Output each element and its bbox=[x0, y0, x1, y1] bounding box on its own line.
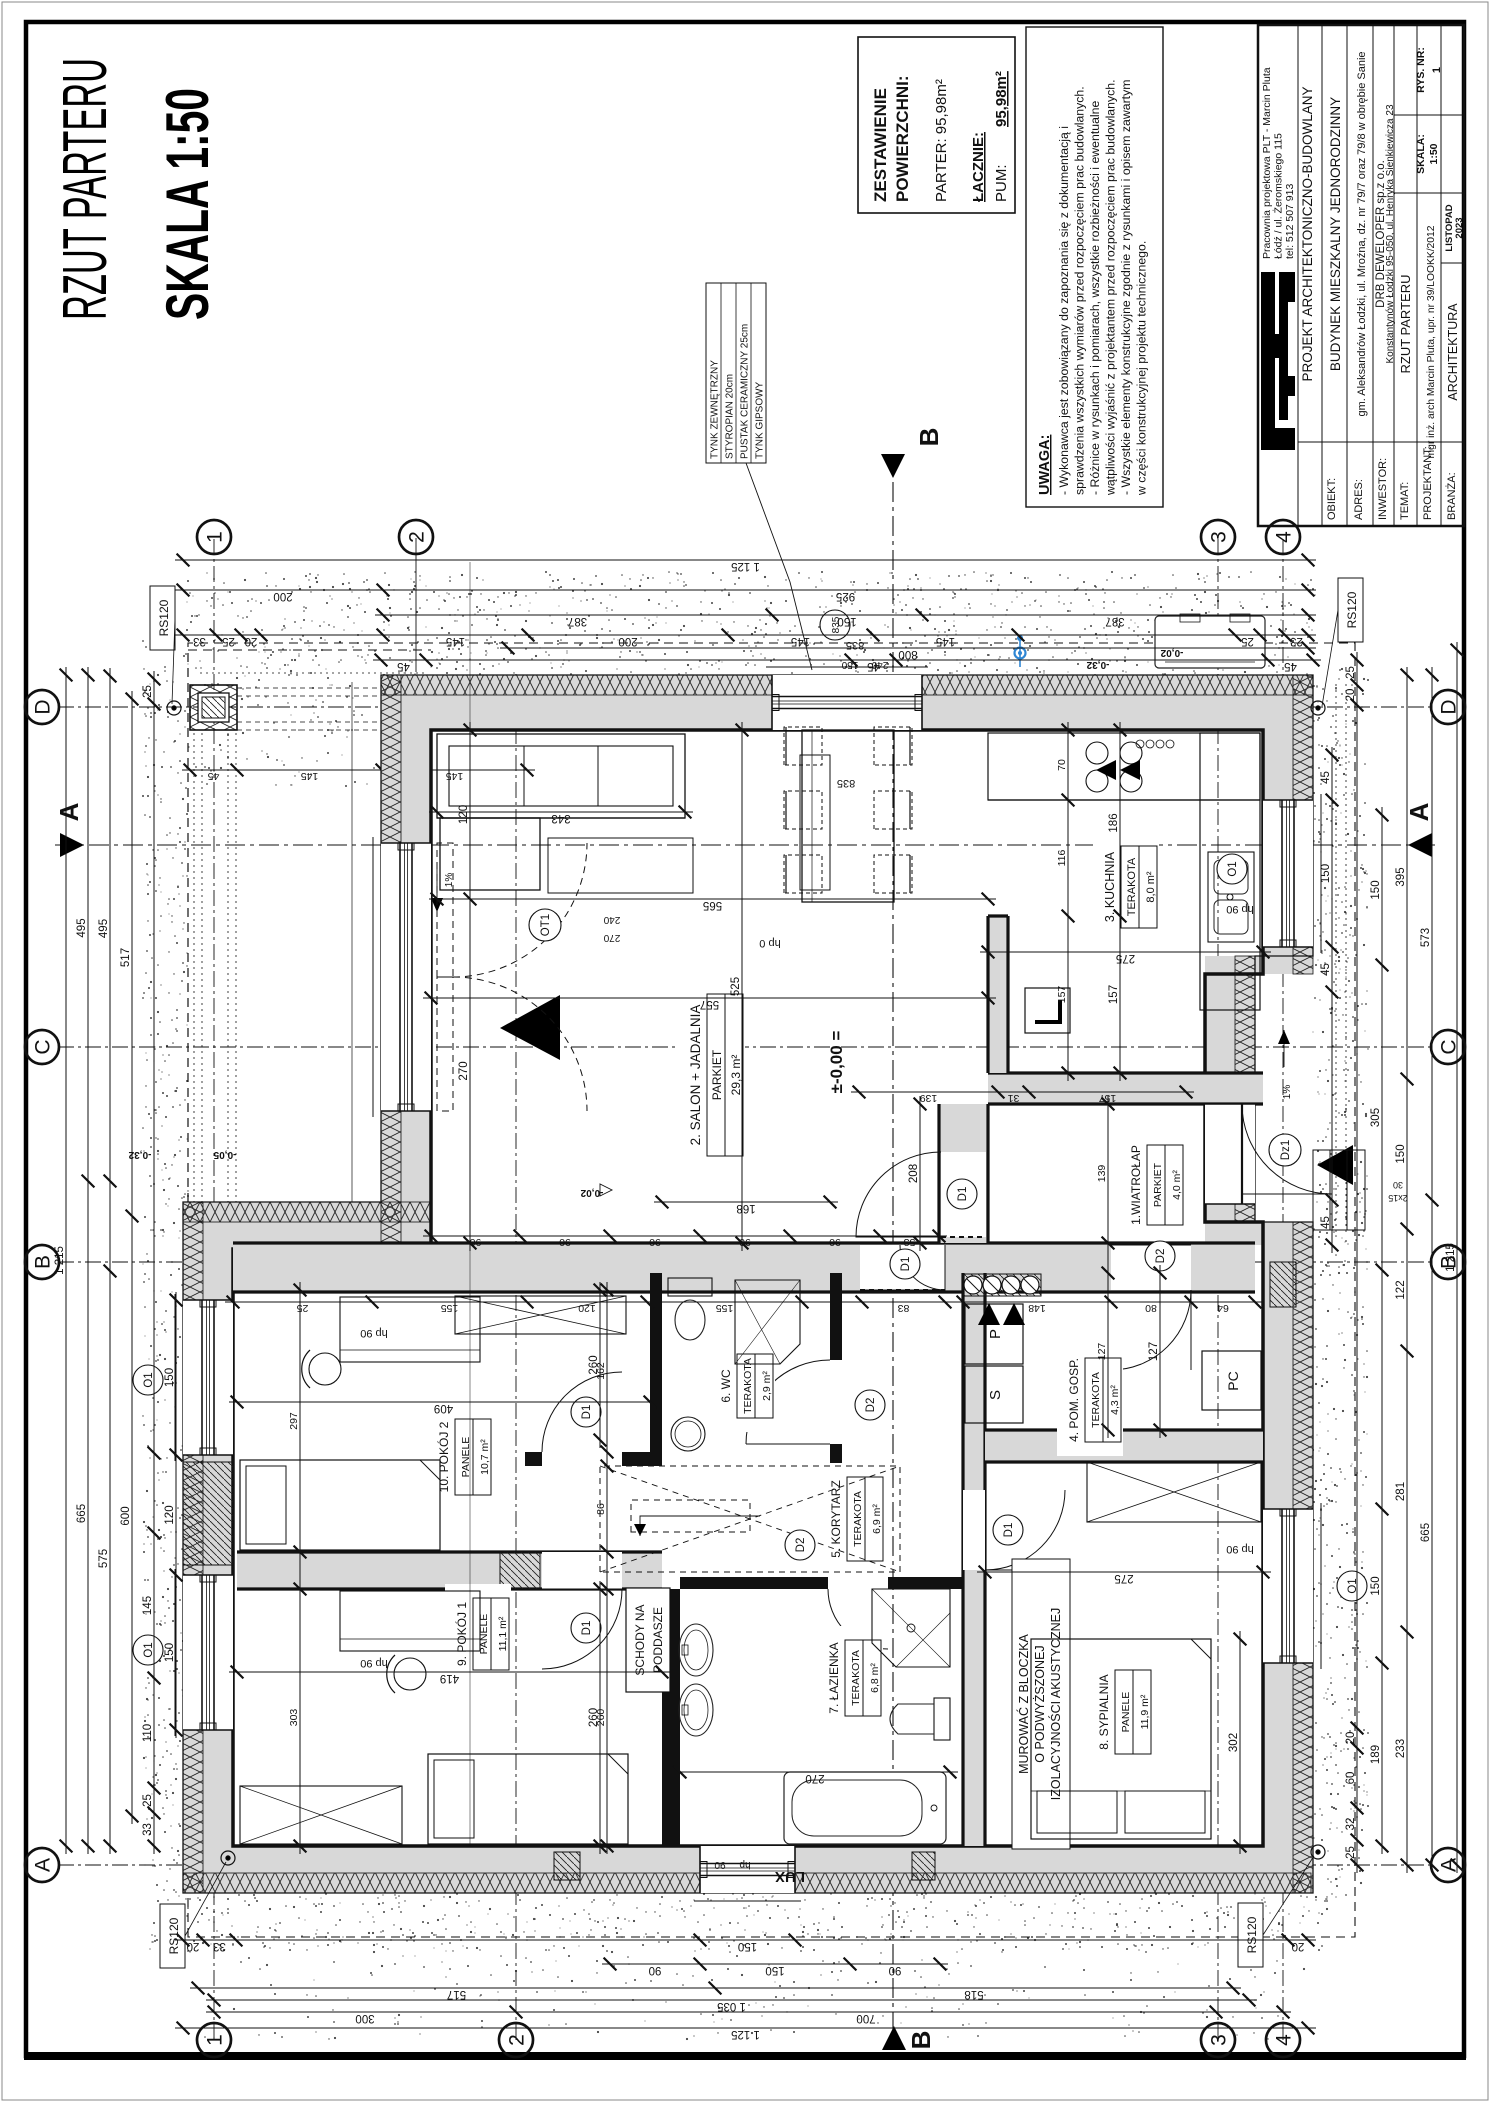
interior wall sypialnia north band bbox=[963, 1273, 985, 1846]
svg-text:45: 45 bbox=[208, 770, 220, 782]
door D1 korytarz-wiatrolap leaf bbox=[860, 1289, 945, 1291]
ground stipple texture bbox=[142, 571, 1369, 2040]
svg-text:3: 3 bbox=[1208, 531, 1231, 543]
svg-text:Dz1: Dz1 bbox=[1280, 1140, 1292, 1160]
svg-text:90: 90 bbox=[714, 1859, 726, 1870]
svg-text:O1: O1 bbox=[1227, 861, 1239, 876]
svg-text:- Różnice w rysunkach i pomiar: - Różnice w rysunkach i pomiarach, wszys… bbox=[1088, 100, 1102, 495]
svg-text:O PODWYŻSZONEJ: O PODWYŻSZONEJ bbox=[1033, 1645, 1047, 1762]
svg-text:64: 64 bbox=[1217, 1302, 1229, 1314]
dining chairs bottom row bbox=[874, 855, 912, 893]
svg-text:150: 150 bbox=[1320, 864, 1332, 883]
svg-text:PARKIET: PARKIET bbox=[710, 1049, 724, 1100]
svg-text:1 125: 1 125 bbox=[731, 560, 760, 572]
svg-text:150: 150 bbox=[1395, 1144, 1407, 1163]
room label salon bbox=[679, 980, 745, 1170]
svg-text:ADRES:: ADRES: bbox=[1353, 479, 1365, 520]
svg-text:gm. Aleksandrów Łodzki, ul. Mr: gm. Aleksandrów Łodzki, ul. Mroźna, dz. … bbox=[1356, 51, 1368, 416]
svg-text:127: 127 bbox=[1148, 1342, 1160, 1361]
kitchen small circles bbox=[1136, 740, 1144, 748]
svg-text:419: 419 bbox=[440, 1672, 459, 1684]
svg-text:700: 700 bbox=[856, 2012, 875, 2024]
svg-text:168: 168 bbox=[736, 1202, 755, 1214]
legend leader line bbox=[746, 463, 812, 670]
interior chain along wall B west side bbox=[225, 1301, 1263, 1303]
dining table bbox=[802, 730, 894, 902]
svg-text:150: 150 bbox=[164, 1368, 176, 1387]
svg-text:A: A bbox=[32, 1858, 55, 1872]
svg-text:45: 45 bbox=[1284, 660, 1297, 672]
svg-text:SCHODY NA: SCHODY NA bbox=[633, 1604, 647, 1675]
svg-text:25: 25 bbox=[297, 1302, 309, 1314]
room label pokoj1 bbox=[445, 1584, 511, 1684]
svg-text:32: 32 bbox=[1345, 1818, 1357, 1831]
svg-text:1: 1 bbox=[204, 2034, 227, 2046]
interior wall salon kitchen stub bbox=[988, 916, 1008, 1073]
svg-text:116: 116 bbox=[1056, 849, 1068, 866]
interior chain pomgosp bbox=[1107, 1096, 1109, 1438]
axis line 2 right stub bbox=[415, 538, 417, 672]
tag D1 pokoj1 bbox=[571, 1613, 601, 1643]
door D1 sypialnia opening bbox=[963, 1490, 985, 1570]
exterior walls masonry fill bbox=[183, 1846, 1311, 1893]
svg-text:1:50: 1:50 bbox=[1428, 143, 1440, 164]
blue water symbol bbox=[1015, 635, 1026, 667]
vent triangles pomgosp bbox=[978, 1303, 1000, 1325]
pokoj2 chair bbox=[309, 1353, 341, 1385]
lazienka toilet bbox=[934, 1698, 950, 1740]
interior wall pokoj2 east bbox=[650, 1290, 662, 1452]
svg-text:OBIEKT:: OBIEKT: bbox=[1326, 478, 1338, 520]
window OT1 terrace door bbox=[381, 843, 431, 1111]
svg-text:31: 31 bbox=[1008, 1092, 1020, 1104]
interior wall pokoj1 north band bbox=[237, 1552, 662, 1589]
svg-text:200: 200 bbox=[273, 590, 292, 602]
svg-text:95,98m²: 95,98m² bbox=[993, 71, 1010, 127]
svg-text:45: 45 bbox=[1320, 963, 1332, 976]
interior wall sypialnia pomgosp bbox=[985, 1430, 1263, 1462]
svg-text:hp 0: hp 0 bbox=[759, 937, 780, 949]
svg-text:PUSTAK CERAMICZNY 25cm: PUSTAK CERAMICZNY 25cm bbox=[740, 324, 751, 459]
sypialnia wardrobe bbox=[1087, 1462, 1261, 1522]
svg-text:RYS. NR:: RYS. NR: bbox=[1415, 47, 1427, 93]
svg-text:RS120: RS120 bbox=[1345, 591, 1359, 628]
svg-text:B: B bbox=[914, 428, 944, 447]
svg-text:90: 90 bbox=[739, 1236, 751, 1248]
svg-text:270: 270 bbox=[603, 932, 620, 943]
svg-text:hp 90: hp 90 bbox=[360, 1657, 388, 1669]
svg-text:INWESTOR:: INWESTOR: bbox=[1377, 458, 1389, 520]
tag east window bbox=[820, 610, 850, 640]
pokoj2 wardrobe bbox=[455, 1296, 626, 1334]
svg-text:387: 387 bbox=[1105, 615, 1124, 627]
zestawienie powierzchni box bbox=[858, 37, 1015, 213]
coffee table bbox=[548, 838, 693, 893]
window salon east bbox=[772, 675, 922, 730]
acoustic block hatched piers bbox=[554, 1852, 580, 1880]
svg-text:665: 665 bbox=[76, 1504, 88, 1523]
svg-text:90: 90 bbox=[649, 1236, 661, 1248]
svg-text:127: 127 bbox=[1096, 1343, 1108, 1361]
interior chain pokoj rooms bbox=[299, 1282, 301, 1854]
svg-text:7. ŁAZIENKA: 7. ŁAZIENKA bbox=[827, 1642, 841, 1713]
svg-text:575: 575 bbox=[98, 1549, 110, 1568]
svg-text:2x15: 2x15 bbox=[1388, 1193, 1408, 1203]
porch steps bbox=[1313, 1150, 1365, 1230]
svg-text:86: 86 bbox=[595, 1503, 607, 1515]
svg-text:517: 517 bbox=[120, 948, 132, 967]
tag OT1 bbox=[529, 909, 561, 941]
axis line 3 bbox=[1217, 538, 1219, 2040]
window O1 pokoj1 bbox=[183, 1575, 233, 1730]
section B marker left bbox=[882, 2026, 906, 2050]
sypialnia bed bbox=[1031, 1639, 1211, 1839]
svg-text:60: 60 bbox=[1345, 1772, 1357, 1785]
svg-text:1: 1 bbox=[204, 531, 227, 543]
svg-text:525: 525 bbox=[730, 977, 742, 996]
door D2 pomgosp leaf bbox=[1111, 1290, 1191, 1370]
svg-text:3: 3 bbox=[1208, 2034, 1231, 2046]
svg-text:- Wykonawca jest zobowiązany d: - Wykonawca jest zobowiązany do zapoznan… bbox=[1057, 126, 1071, 495]
svg-text:4. POM. GOSP.: 4. POM. GOSP. bbox=[1067, 1358, 1081, 1442]
svg-text:305: 305 bbox=[1370, 1108, 1382, 1127]
svg-text:SKALA 1:50: SKALA 1:50 bbox=[154, 88, 221, 320]
svg-text:275: 275 bbox=[1114, 1572, 1133, 1584]
pokoj1 desk bbox=[340, 1591, 480, 1651]
pokoj2 bed bbox=[240, 1460, 440, 1550]
svg-text:TYNK ZEWNĘTRZNY: TYNK ZEWNĘTRZNY bbox=[710, 360, 721, 459]
svg-text:302: 302 bbox=[1228, 1733, 1240, 1752]
svg-text:800: 800 bbox=[898, 648, 917, 660]
lazienka sinks bbox=[679, 1684, 713, 1736]
svg-text:PUM:: PUM: bbox=[993, 165, 1010, 203]
interior chain salon south bbox=[851, 1091, 1194, 1093]
tag D2 pomgosp bbox=[1145, 1241, 1175, 1271]
svg-text:PC: PC bbox=[1225, 1371, 1241, 1390]
svg-text:23: 23 bbox=[1290, 635, 1303, 647]
svg-text:sprawdzenia wszystkich wymiaró: sprawdzenia wszystkich wymiarów przed ro… bbox=[1073, 86, 1087, 495]
svg-text:BRANŻA:: BRANŻA: bbox=[1445, 472, 1458, 520]
svg-text:8,0 m²: 8,0 m² bbox=[1145, 871, 1157, 903]
svg-text:9. POKÓJ 1: 9. POKÓJ 1 bbox=[454, 1602, 469, 1666]
door D1 korytarz-wiatrolap opening bbox=[860, 1245, 945, 1290]
svg-text:25: 25 bbox=[1345, 666, 1357, 679]
svg-text:D2: D2 bbox=[1155, 1249, 1167, 1264]
svg-text:hp: hp bbox=[739, 1859, 751, 1870]
sofa salon bbox=[437, 734, 685, 818]
roof overhang dashed outline bbox=[188, 643, 1355, 1937]
svg-text:90: 90 bbox=[889, 1964, 902, 1976]
svg-text:1: 1 bbox=[1431, 67, 1443, 73]
section A line bbox=[55, 844, 1435, 846]
svg-text:6,9 m²: 6,9 m² bbox=[871, 1504, 883, 1534]
svg-text:UWAGA:: UWAGA: bbox=[1037, 435, 1053, 495]
svg-text:ARCHITEKTURA: ARCHITEKTURA bbox=[1446, 303, 1460, 401]
svg-text:RS120: RS120 bbox=[157, 599, 171, 636]
door D2 kitchen-pomgosp opening bbox=[1111, 1245, 1191, 1290]
title block logo PLT bbox=[1261, 272, 1295, 450]
svg-text:33: 33 bbox=[142, 1823, 154, 1836]
svg-text:600: 600 bbox=[120, 1506, 132, 1525]
exterior wall inner outline thick bbox=[233, 730, 1263, 1846]
svg-text:343: 343 bbox=[551, 812, 570, 824]
svg-text:2. SALON + JADALNIA: 2. SALON + JADALNIA bbox=[688, 1005, 703, 1146]
svg-text:2,9 m²: 2,9 m² bbox=[761, 1371, 773, 1401]
svg-text:148: 148 bbox=[1028, 1302, 1046, 1314]
pokoj2 desk bbox=[340, 1297, 480, 1362]
svg-text:25: 25 bbox=[1241, 635, 1254, 647]
svg-text:mgr inż. arch Marcin Pluta, up: mgr inż. arch Marcin Pluta, upr. nr 39/L… bbox=[1426, 225, 1437, 458]
svg-text:110: 110 bbox=[142, 1724, 154, 1742]
svg-text:MUROWAĆ Z BLOCZKA: MUROWAĆ Z BLOCZKA bbox=[1016, 1633, 1031, 1773]
svg-text:hp 90: hp 90 bbox=[1226, 1543, 1254, 1555]
terrace dashed lines near pillar bbox=[237, 729, 381, 731]
svg-text:PARKIET: PARKIET bbox=[1152, 1162, 1164, 1207]
svg-text:53: 53 bbox=[904, 1236, 916, 1248]
terrace dim chain bbox=[182, 769, 535, 771]
svg-text:45: 45 bbox=[1320, 1216, 1332, 1229]
svg-text:281: 281 bbox=[1395, 1482, 1407, 1501]
room label pokoj2 bbox=[427, 1405, 493, 1509]
svg-text:D1: D1 bbox=[900, 1257, 912, 1272]
axis line 4 bbox=[1282, 538, 1284, 2040]
svg-text:A: A bbox=[54, 802, 84, 821]
svg-text:B: B bbox=[906, 2031, 936, 2050]
svg-text:90: 90 bbox=[559, 1236, 571, 1248]
svg-text:155: 155 bbox=[716, 1302, 734, 1314]
svg-text:OT1: OT1 bbox=[540, 914, 552, 936]
interior wall salon divider B bbox=[233, 1243, 1255, 1292]
svg-text:150: 150 bbox=[841, 659, 858, 670]
svg-text:1 035: 1 035 bbox=[717, 2000, 746, 2012]
svg-text:D1: D1 bbox=[581, 1621, 593, 1636]
svg-text:6,8 m²: 6,8 m² bbox=[869, 1663, 881, 1693]
svg-text:-0,05: -0,05 bbox=[213, 1149, 236, 1160]
svg-text:186: 186 bbox=[1108, 813, 1120, 832]
svg-text:70: 70 bbox=[1056, 759, 1068, 771]
svg-text:TERAKOTA: TERAKOTA bbox=[742, 1358, 754, 1414]
svg-text:RZUT PARTERU: RZUT PARTERU bbox=[51, 58, 120, 320]
svg-text:POWIERZCHNI:: POWIERZCHNI: bbox=[893, 75, 912, 202]
svg-text:11,1 m²: 11,1 m² bbox=[497, 1616, 509, 1651]
svg-text:33: 33 bbox=[213, 1940, 226, 1952]
kitchen hob bbox=[1086, 770, 1108, 792]
svg-text:B: B bbox=[32, 1255, 55, 1269]
svg-text:260: 260 bbox=[595, 1709, 607, 1727]
interior wall pokoj2 lower east bbox=[525, 1452, 662, 1466]
svg-text:TERAKOTA: TERAKOTA bbox=[1090, 1372, 1102, 1428]
tag D1 sypialnia bbox=[993, 1515, 1023, 1545]
svg-text:O1: O1 bbox=[143, 1372, 155, 1387]
svg-text:150: 150 bbox=[738, 1940, 757, 1952]
svg-text:25: 25 bbox=[222, 635, 235, 647]
svg-text:A: A bbox=[1404, 802, 1434, 821]
schody label bbox=[626, 1588, 670, 1692]
svg-text:297: 297 bbox=[288, 1412, 300, 1430]
room label wc bbox=[709, 1340, 775, 1432]
dim chains left side bbox=[175, 2027, 1316, 2029]
interior wall wiatrolap salon bbox=[939, 1104, 988, 1243]
terrace roof dashed outline bbox=[187, 650, 189, 1202]
svg-text:PANELE: PANELE bbox=[1120, 1692, 1132, 1733]
terrace roof gutter line bbox=[351, 682, 353, 1230]
frame left heavy edge bbox=[24, 2052, 1466, 2060]
svg-text:D1: D1 bbox=[1003, 1523, 1015, 1538]
dim chains bottom side bbox=[1456, 642, 1458, 1873]
svg-text:517: 517 bbox=[447, 1988, 466, 2000]
svg-text:2: 2 bbox=[506, 2034, 529, 2046]
svg-text:145: 145 bbox=[791, 635, 810, 647]
svg-text:20: 20 bbox=[245, 635, 258, 647]
tag O1 sypialnia window bbox=[1337, 1571, 1367, 1601]
lazienka shower bbox=[872, 1589, 950, 1667]
svg-text:925: 925 bbox=[836, 590, 855, 602]
stairs dashed bbox=[600, 1466, 900, 1572]
svg-text:4: 4 bbox=[1273, 531, 1296, 543]
svg-text:300: 300 bbox=[355, 2012, 374, 2024]
svg-text:1 215: 1 215 bbox=[54, 1246, 66, 1275]
svg-text:120: 120 bbox=[578, 1302, 596, 1314]
svg-text:PROJEKT ARCHITEKTONICZNO-BUDOW: PROJEKT ARCHITEKTONICZNO-BUDOWLANY bbox=[1300, 86, 1315, 381]
door D2 lazienka opening bbox=[828, 1577, 888, 1589]
svg-text:w części konstrukcyjnej projek: w części konstrukcyjnej projektu technic… bbox=[1135, 241, 1149, 496]
door D1 pokoj2 opening bbox=[542, 1452, 622, 1466]
window O1 sypialnia south bbox=[1263, 1509, 1313, 1663]
boiler PC bbox=[1202, 1351, 1261, 1410]
axis line 2 left bbox=[515, 672, 517, 2040]
svg-text:145: 145 bbox=[446, 770, 464, 782]
svg-text:5. KORYTARZ: 5. KORYTARZ bbox=[829, 1480, 843, 1558]
svg-text:P: P bbox=[987, 1329, 1004, 1339]
svg-text:S: S bbox=[987, 1390, 1004, 1400]
svg-text:20: 20 bbox=[1345, 1732, 1357, 1745]
door D1 pokoj1 opening bbox=[542, 1552, 622, 1589]
svg-text:D2: D2 bbox=[795, 1538, 807, 1553]
tag D2 wc bbox=[855, 1390, 885, 1420]
axis line A bbox=[58, 1864, 1432, 1866]
svg-text:RZUT PARTERU: RZUT PARTERU bbox=[1398, 275, 1413, 374]
pokoj1 bed bbox=[428, 1754, 628, 1844]
kitchen sink bbox=[1208, 852, 1254, 942]
washbasin wc bbox=[671, 1417, 705, 1451]
svg-text:90: 90 bbox=[470, 1236, 482, 1248]
exterior wall outer outline bbox=[183, 675, 1313, 1893]
svg-text:665: 665 bbox=[1420, 1523, 1432, 1542]
exterior walls insulation hatch bbox=[183, 1873, 1311, 1893]
svg-text:- Wszystkie elementy konstrukc: - Wszystkie elementy konstrukcyjne zgodn… bbox=[1119, 80, 1133, 496]
svg-text:hp 90: hp 90 bbox=[1226, 903, 1254, 915]
svg-text:20: 20 bbox=[1292, 1940, 1305, 1952]
svg-text:25: 25 bbox=[1345, 1846, 1357, 1859]
svg-text:45: 45 bbox=[397, 660, 410, 672]
tv sideboard bbox=[800, 755, 830, 890]
svg-text:565: 565 bbox=[703, 899, 722, 911]
svg-text:275: 275 bbox=[1116, 952, 1135, 964]
svg-text:wątpliwości wyjaśnić z projekt: wątpliwości wyjaśnić z projektantem prze… bbox=[1104, 79, 1118, 496]
svg-text:233: 233 bbox=[1395, 1739, 1407, 1758]
svg-text:1.WIATROŁAP: 1.WIATROŁAP bbox=[1129, 1145, 1143, 1225]
svg-text:495: 495 bbox=[98, 919, 110, 938]
svg-text:TERAKOTA: TERAKOTA bbox=[852, 1491, 864, 1547]
tag D1 wiatrolap bbox=[890, 1249, 920, 1279]
svg-text:122: 122 bbox=[1395, 1280, 1407, 1299]
tag Dz1 bbox=[1269, 1134, 1301, 1166]
shower wc bbox=[735, 1280, 800, 1364]
svg-text:25: 25 bbox=[142, 685, 154, 698]
svg-text:BUDYNEK MIESZKALNY JEDNORODZIN: BUDYNEK MIESZKALNY JEDNORODZINNY bbox=[1328, 97, 1343, 371]
interior wall wc south bbox=[830, 1273, 842, 1466]
title block right cells bbox=[1441, 262, 1464, 264]
room label wiatrolap bbox=[1119, 1131, 1185, 1239]
interior wall lazienka east bbox=[680, 1577, 963, 1589]
tag D1 pokoj2 bbox=[571, 1397, 601, 1427]
svg-text:D1: D1 bbox=[581, 1405, 593, 1420]
svg-text:tel: 512 507 913: tel: 512 507 913 bbox=[1284, 184, 1296, 259]
terrace pillar bbox=[190, 685, 237, 730]
svg-text:150: 150 bbox=[164, 1643, 176, 1662]
interior chain kitchen bbox=[1067, 722, 1069, 1081]
svg-text:495: 495 bbox=[76, 918, 88, 937]
washer P bbox=[965, 1304, 1023, 1364]
svg-text:208: 208 bbox=[908, 1164, 920, 1183]
svg-text:200: 200 bbox=[618, 635, 637, 647]
room label korytarz bbox=[819, 1463, 885, 1575]
svg-text:145: 145 bbox=[446, 635, 465, 647]
bench object top right bbox=[1155, 616, 1265, 668]
kitchen counter east bbox=[988, 733, 1260, 800]
tag O1 pokoj1 window bbox=[133, 1365, 163, 1395]
uwaga notes box bbox=[1026, 27, 1163, 507]
terrace slope 1% bbox=[436, 862, 438, 912]
svg-text:4,3 m²: 4,3 m² bbox=[1109, 1385, 1121, 1415]
svg-text:157: 157 bbox=[1108, 985, 1120, 1004]
svg-text:835: 835 bbox=[837, 777, 855, 789]
axis bubbles numbers right bbox=[197, 520, 231, 554]
svg-text:30: 30 bbox=[1393, 1180, 1403, 1190]
axis line D bbox=[58, 706, 1432, 708]
window LUX lazienka west bbox=[700, 1846, 795, 1893]
pokoj1 wardrobe bbox=[240, 1786, 402, 1844]
svg-text:270: 270 bbox=[805, 1772, 824, 1784]
svg-text:4,0 m²: 4,0 m² bbox=[1171, 1170, 1183, 1200]
axis bubbles letters bottom bbox=[1431, 1848, 1465, 1882]
svg-text:10. POKÓJ 2: 10. POKÓJ 2 bbox=[436, 1421, 451, 1492]
entry door Dz1 opening bbox=[1205, 1104, 1255, 1204]
room label sypialnia bbox=[1087, 1656, 1153, 1768]
svg-text:150: 150 bbox=[1370, 1576, 1382, 1595]
svg-text:90: 90 bbox=[829, 1236, 841, 1248]
murowac note bbox=[1012, 1559, 1070, 1849]
plumbing manifold circles bbox=[963, 1274, 1041, 1296]
svg-text:Pracownia projektowa PLT - Mar: Pracownia projektowa PLT - Marcin Pluta bbox=[1261, 67, 1273, 259]
svg-text:83: 83 bbox=[898, 1302, 910, 1314]
terrace dotted roof beam lines bbox=[193, 730, 195, 1227]
svg-text:387: 387 bbox=[568, 615, 587, 627]
svg-text:Łódź / ul. Żeromskiego 115: Łódź / ul. Żeromskiego 115 bbox=[1272, 133, 1285, 259]
OT1 door dashed swing bbox=[437, 977, 453, 1111]
svg-text:1 215: 1 215 bbox=[1445, 1243, 1457, 1272]
svg-text:D2: D2 bbox=[865, 1398, 877, 1413]
svg-text:150: 150 bbox=[1370, 880, 1382, 899]
tag O1 kitchen window bbox=[1217, 854, 1247, 884]
svg-text:139: 139 bbox=[1096, 1165, 1108, 1183]
room label lazienka bbox=[817, 1626, 883, 1730]
room label pomgosp bbox=[1057, 1344, 1123, 1456]
entry arrow bbox=[1317, 1145, 1353, 1185]
svg-text:120: 120 bbox=[164, 1505, 176, 1524]
svg-text:TYNK GIPSOWY: TYNK GIPSOWY bbox=[755, 381, 766, 459]
toilet wc bbox=[668, 1278, 712, 1296]
